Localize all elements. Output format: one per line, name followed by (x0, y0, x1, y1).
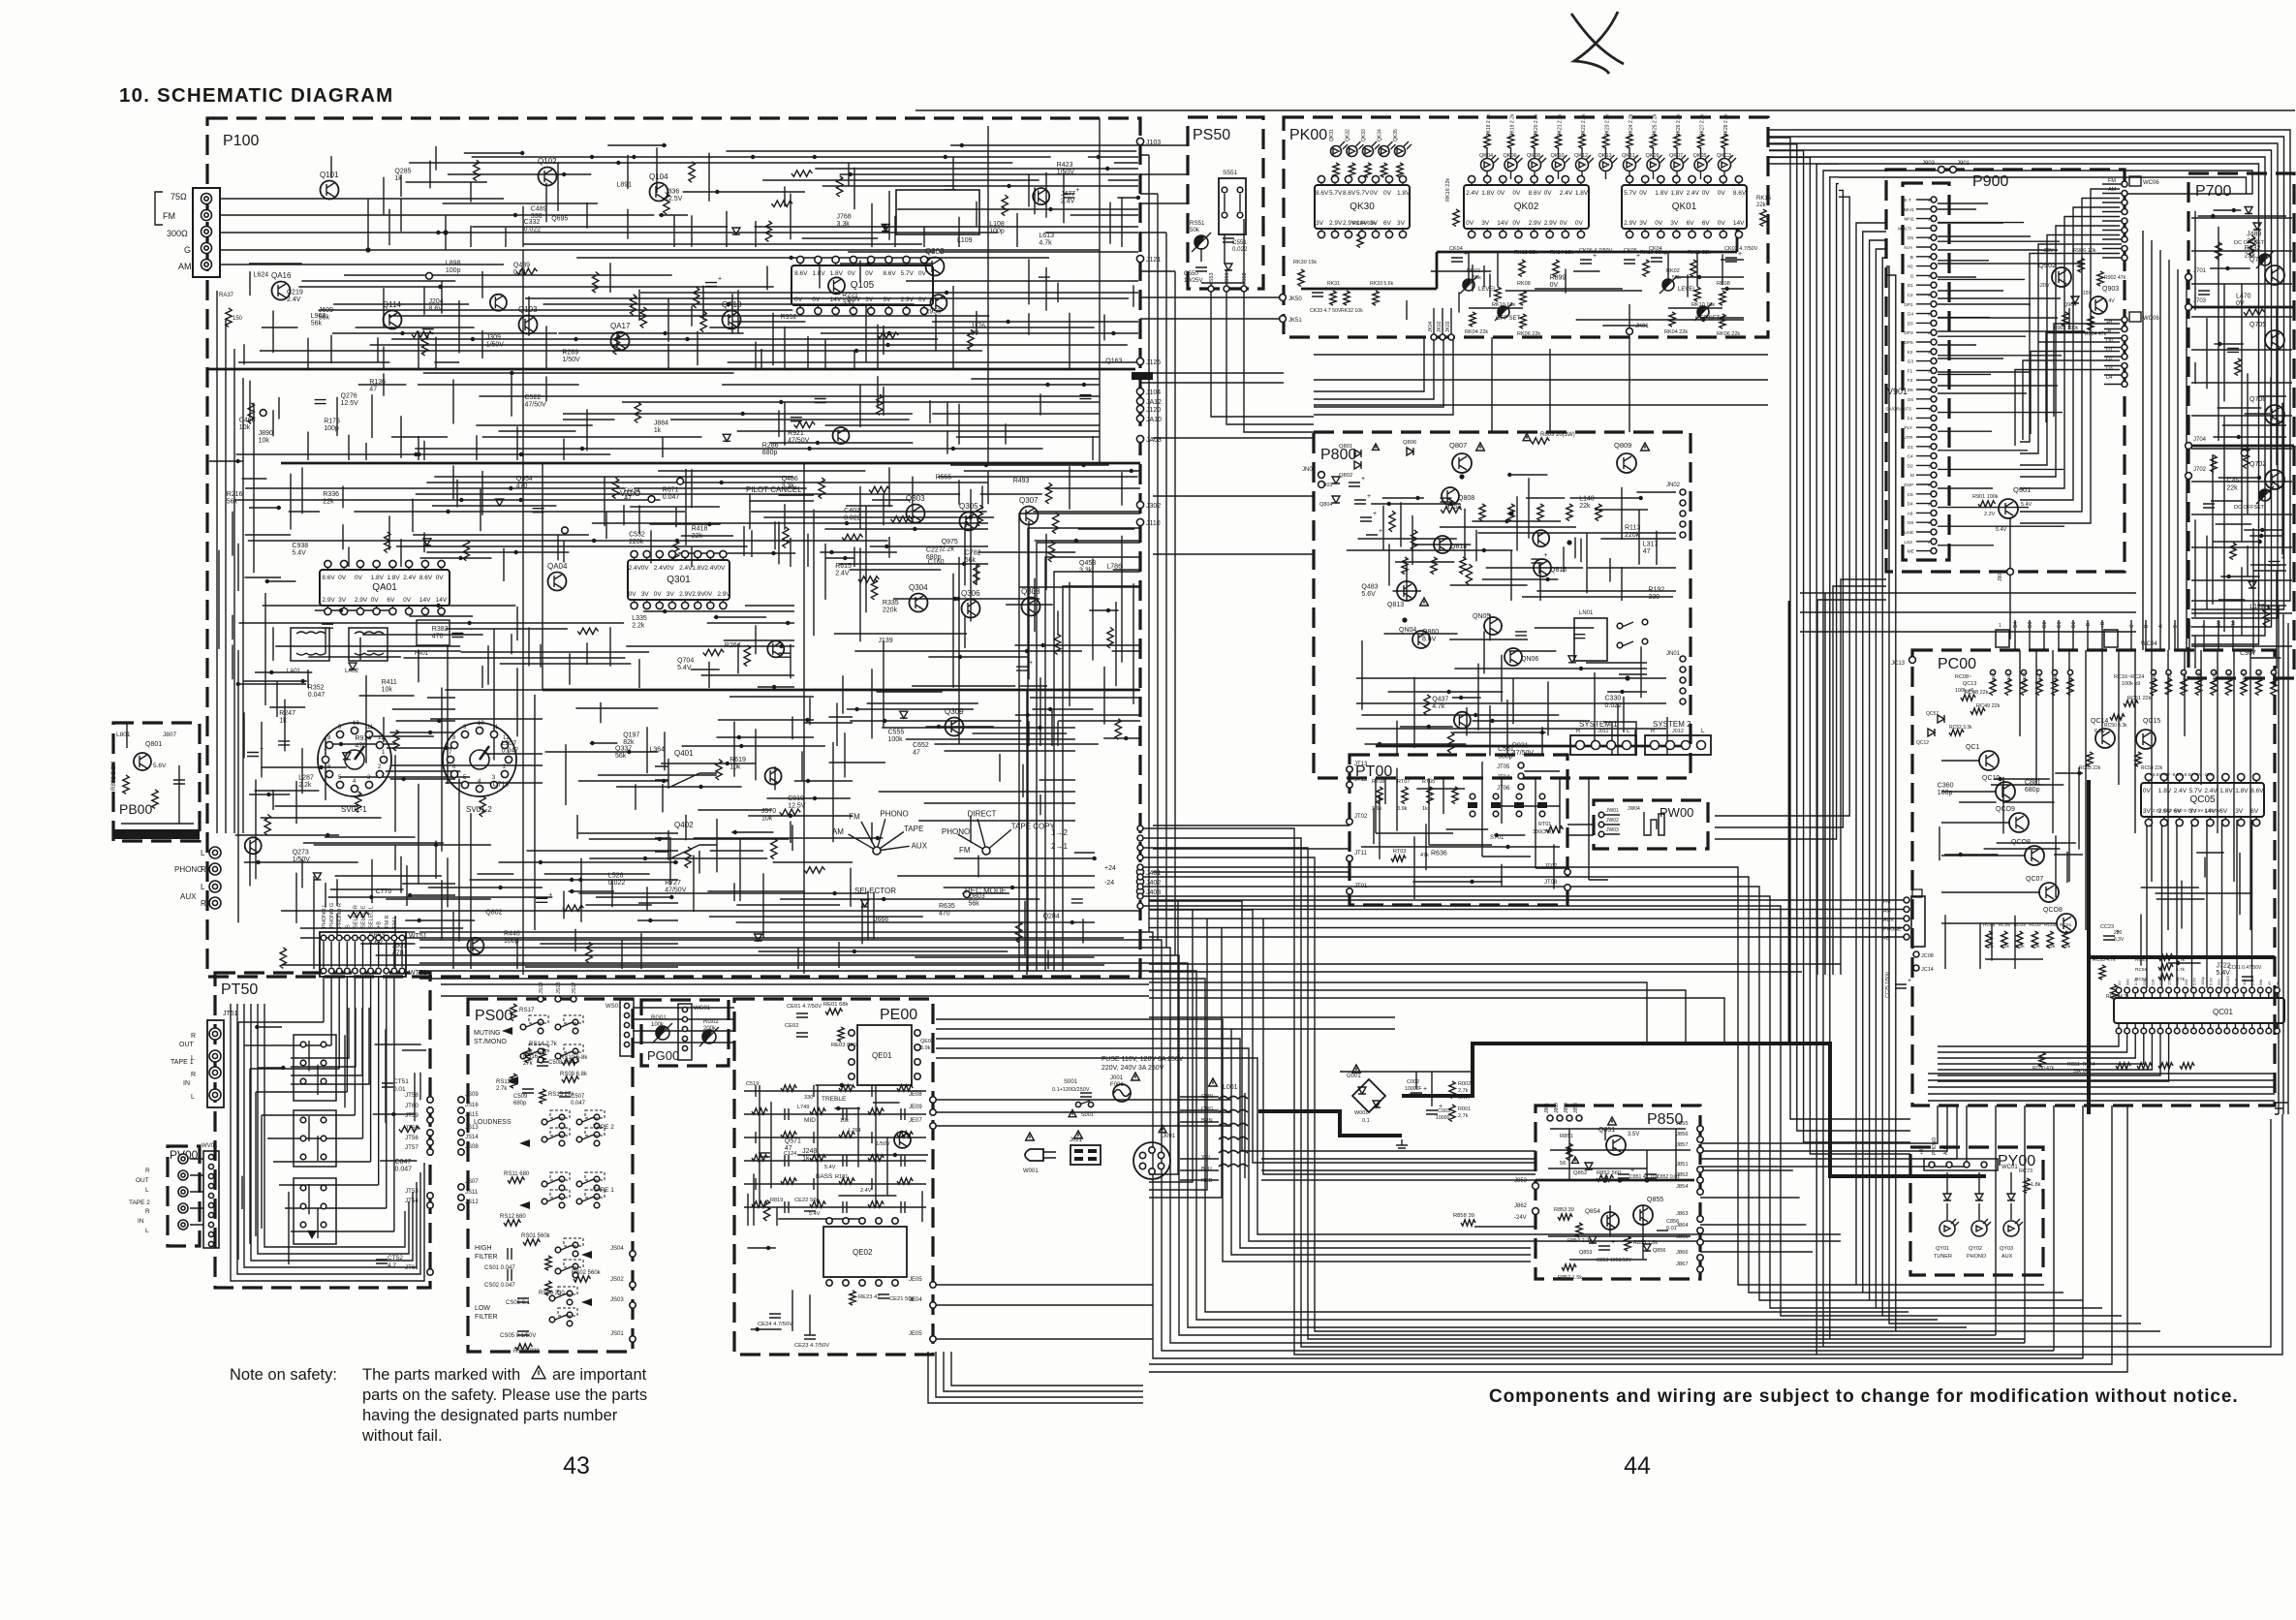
svg-text:Q706: Q706 (2249, 396, 2266, 403)
svg-text:Q401: Q401 (674, 749, 694, 758)
svg-text:12: 12 (378, 735, 385, 741)
svg-text:Q801: Q801 (1339, 444, 1352, 450)
svg-text:14V: 14V (436, 597, 448, 604)
svg-text:3.9k: 3.9k (1372, 806, 1382, 812)
svg-text:PHONO: PHONO (1932, 1137, 1938, 1155)
svg-text:MH2: MH2 (1904, 217, 1913, 223)
svg-text:R636: R636 (1431, 850, 1447, 857)
svg-text:10: 10 (353, 721, 359, 727)
svg-text:JT06: JT06 (1497, 786, 1510, 792)
svg-text:0V: 0V (355, 575, 363, 581)
svg-text:5.4V: 5.4V (2104, 298, 2115, 304)
svg-text:J248: J248 (802, 1148, 817, 1155)
svg-text:RK08: RK08 (1517, 281, 1531, 287)
svg-text:C402: C402 (844, 508, 860, 514)
svg-text:+: + (1738, 251, 1742, 258)
svg-text:RK20 2.2k: RK20 2.2k (1534, 113, 1539, 137)
svg-text:+24: +24 (1104, 865, 1116, 872)
svg-text:Q804: Q804 (1319, 502, 1332, 508)
svg-text:Q439: Q439 (513, 263, 530, 269)
svg-text:R906 10k: R906 10k (2073, 248, 2096, 254)
svg-text:+B: +B (377, 921, 383, 928)
svg-text:JS08: JS08 (465, 1144, 479, 1150)
svg-text:RK19 2.2k: RK19 2.2k (1510, 113, 1516, 137)
svg-text:47: 47 (369, 387, 377, 393)
svg-text:AM: AM (2108, 187, 2117, 193)
svg-text:MID: MID (804, 1117, 816, 1124)
svg-text:R: R (1651, 729, 1656, 734)
svg-text:AM: AM (178, 262, 192, 271)
svg-text:PHONO G: PHONO G (329, 903, 335, 928)
svg-text:8.6V: 8.6V (2250, 788, 2264, 794)
svg-text:7: 7 (2202, 625, 2208, 628)
svg-text:C782: C782 (965, 550, 981, 557)
svg-text:Q705: Q705 (2249, 322, 2266, 328)
svg-text:The parts marked with: The parts marked with (362, 1366, 520, 1384)
svg-text:AM: AM (832, 827, 844, 836)
svg-text:22k: 22k (323, 499, 334, 506)
svg-text:QC13: QC13 (1963, 681, 1976, 687)
svg-text:220k: 220k (883, 607, 898, 614)
svg-text:Note on safety:: Note on safety: (230, 1366, 337, 1384)
svg-text:5.6V: 5.6V (2209, 977, 2214, 985)
svg-text:100k: 100k (888, 736, 904, 743)
svg-text:F001: F001 (1110, 1082, 1124, 1088)
svg-text:R932: R932 (2245, 245, 2261, 252)
svg-text:+B: +B (2100, 621, 2106, 628)
svg-text:1.8V: 1.8V (371, 575, 385, 581)
svg-text:C6: C6 (1908, 492, 1913, 498)
svg-text:56k: 56k (2258, 980, 2263, 985)
svg-text:330: 330 (1648, 594, 1660, 601)
svg-text:12.5V: 12.5V (2167, 975, 2172, 985)
svg-text:RC52 3.3k: RC52 3.3k (1949, 725, 1972, 731)
svg-text:R446: R446 (504, 931, 520, 938)
svg-text:ORG: ORG (1201, 1106, 1214, 1112)
svg-text:10k: 10k (761, 816, 773, 823)
svg-text:R352: R352 (308, 685, 325, 692)
svg-text:PB00: PB00 (119, 801, 152, 817)
svg-text:J859: J859 (1564, 1103, 1569, 1113)
svg-text:Q571: Q571 (785, 1137, 801, 1144)
svg-text:F3: F3 (1908, 378, 1913, 384)
svg-text:J309: J309 (486, 334, 501, 341)
svg-text:JT54: JT54 (405, 1198, 419, 1204)
svg-text:RK02: RK02 (1467, 268, 1480, 274)
svg-text:JN03: JN03 (1302, 467, 1317, 473)
svg-text:C770: C770 (376, 888, 392, 895)
svg-text:C453: C453 (2226, 478, 2243, 484)
svg-text:Q695: Q695 (551, 215, 568, 222)
svg-text:Q163: Q163 (1105, 358, 1122, 365)
svg-text:Q307: Q307 (1019, 496, 1039, 505)
svg-text:JT13: JT13 (1354, 762, 1368, 767)
svg-text:3.3k: 3.3k (1079, 568, 1093, 575)
svg-text:RC61~RC64: RC61~RC64 (2067, 1062, 2095, 1068)
svg-text:WC01: WC01 (2001, 1165, 2018, 1170)
svg-text:JT58: JT58 (405, 1092, 419, 1099)
svg-text:N.H: N.H (1904, 245, 1912, 251)
svg-text:JW04: JW04 (1628, 806, 1640, 812)
svg-text:1/50V: 1/50V (293, 857, 311, 863)
svg-text:Q902: Q902 (2038, 261, 2056, 269)
svg-text:C881: C881 (2025, 780, 2041, 787)
svg-text:+: + (1379, 528, 1382, 535)
svg-text:5.7V: 5.7V (901, 270, 915, 277)
svg-text:22k: 22k (2150, 980, 2155, 985)
svg-text:JS14: JS14 (465, 1135, 479, 1140)
svg-text:CE24 4.7/50V: CE24 4.7/50V (758, 1322, 792, 1327)
svg-text:1.8V: 1.8V (387, 575, 400, 581)
svg-text:4.7: 4.7 (388, 1262, 396, 1269)
svg-text:16: 16 (1928, 407, 1933, 412)
svg-text:R855 1.8k: R855 1.8k (1633, 1240, 1658, 1246)
svg-text:R336: R336 (323, 491, 339, 498)
svg-text:J704: J704 (2193, 437, 2207, 443)
svg-text:OUT: OUT (136, 1177, 149, 1184)
svg-text:TREBLE: TREBLE (822, 1096, 847, 1103)
svg-text:R181: R181 (835, 1174, 848, 1180)
svg-text:2→1: 2→1 (1051, 842, 1068, 851)
svg-text:A9: A9 (1908, 511, 1913, 516)
svg-text:22k: 22k (2226, 485, 2238, 492)
svg-text:R921: R921 (788, 430, 804, 437)
svg-text:Q102: Q102 (538, 157, 557, 166)
svg-text:RC53 22k: RC53 22k (2079, 765, 2101, 771)
svg-text:JW01: JW01 (1606, 808, 1619, 814)
svg-text:8.6V: 8.6V (1422, 636, 1437, 642)
svg-text:L001: L001 (1223, 1084, 1238, 1091)
svg-text:0V: 0V (1550, 282, 1559, 289)
svg-text:CK04: CK04 (1449, 246, 1463, 252)
svg-text:Q851: Q851 (1598, 1127, 1615, 1134)
svg-text:RT03: RT03 (1393, 849, 1406, 855)
svg-text:H2: H2 (1908, 265, 1913, 270)
svg-text:2.4V: 2.4V (2174, 788, 2187, 794)
svg-text:JS19: JS19 (539, 981, 544, 994)
svg-text:J902: J902 (1998, 571, 2003, 581)
svg-text:W001: W001 (1023, 1168, 1039, 1174)
svg-text:1.8k: 1.8k (2031, 1182, 2041, 1188)
svg-text:J091: J091 (1163, 1134, 1176, 1139)
svg-text:W001: W001 (1354, 1110, 1368, 1116)
svg-text:RC08~: RC08~ (1955, 674, 1971, 680)
svg-text:RC17: RC17 (2167, 672, 2172, 684)
svg-text:R411: R411 (382, 679, 397, 686)
svg-text:RE01 68k: RE01 68k (823, 1002, 849, 1008)
svg-text:1.8V: 1.8V (2219, 788, 2233, 794)
svg-text:RC8: RC8 (2053, 674, 2058, 684)
svg-text:8.6V: 8.6V (883, 270, 896, 277)
svg-text:3.3k: 3.3k (837, 221, 851, 228)
svg-text:8.6V: 8.6V (1343, 190, 1356, 197)
svg-text:JT53: JT53 (405, 1188, 419, 1195)
svg-text:R902 47k: R902 47k (2104, 275, 2126, 281)
svg-text:R: R (1576, 729, 1581, 734)
svg-text:RK11 82k: RK11 82k (1688, 250, 1711, 256)
svg-text:6V: 6V (1687, 220, 1695, 227)
svg-text:C489: C489 (531, 205, 547, 212)
svg-text:R635: R635 (939, 903, 955, 910)
svg-text:SV01-2: SV01-2 (466, 805, 492, 814)
svg-text:RS02 560k: RS02 560k (572, 1270, 602, 1276)
svg-text:Q860: Q860 (1422, 629, 1439, 636)
svg-text:R615: R615 (835, 563, 852, 570)
svg-text:L: L (201, 849, 205, 857)
svg-text:RC73: RC73 (2019, 1168, 2032, 1174)
svg-text:RG02: RG02 (703, 1019, 719, 1025)
svg-text:10k: 10k (2242, 980, 2247, 985)
svg-text:parts on the safety. Please us: parts on the safety. Please use the part… (362, 1386, 647, 1404)
svg-text:R555: R555 (936, 474, 952, 481)
svg-text:PS50: PS50 (1193, 127, 1230, 143)
svg-text:CE22 56p: CE22 56p (794, 1198, 820, 1203)
svg-text:2.4V: 2.4V (1466, 190, 1479, 197)
svg-text:10k: 10k (259, 438, 270, 445)
svg-text:0V: 0V (371, 597, 380, 604)
svg-text:47k: 47k (1420, 853, 1429, 858)
svg-text:DC OFFSET: DC OFFSET (2234, 505, 2265, 511)
svg-text:D6: D6 (1908, 388, 1913, 393)
svg-text:J855: J855 (1676, 1121, 1689, 1127)
svg-text:JS02: JS02 (610, 1277, 624, 1283)
svg-text:1: 1 (1999, 623, 2001, 629)
svg-text:JS07: JS07 (465, 1179, 479, 1185)
svg-text:Q337: Q337 (615, 746, 632, 753)
svg-text:JT59: JT59 (405, 1112, 419, 1119)
svg-text:0V: 0V (1639, 190, 1648, 197)
svg-text:L624: L624 (254, 271, 269, 278)
svg-text:22k: 22k (692, 533, 703, 540)
svg-text:J854: J854 (1676, 1184, 1689, 1190)
svg-text:6V: 6V (2250, 808, 2259, 815)
svg-text:CS06 0.1: CS06 0.1 (506, 1300, 531, 1306)
svg-text:F1: F1 (1908, 368, 1913, 374)
svg-text:5.4V: 5.4V (292, 549, 306, 556)
svg-text:C4: C4 (1908, 454, 1913, 460)
svg-text:WC06: WC06 (2143, 180, 2159, 186)
svg-text:Q103: Q103 (518, 305, 538, 314)
svg-text:+: + (1361, 476, 1365, 483)
svg-text:C332: C332 (524, 219, 541, 226)
svg-text:50k: 50k (1190, 227, 1200, 234)
svg-text:FM: FM (163, 211, 175, 221)
svg-text:Q702: Q702 (2249, 461, 2266, 468)
svg-text:QK05: QK05 (1693, 153, 1707, 159)
svg-text:R853 39: R853 39 (1554, 1207, 1574, 1213)
svg-text:G5: G5 (1908, 235, 1914, 241)
svg-text:C555: C555 (888, 730, 905, 736)
svg-text:5.7V: 5.7V (1356, 190, 1370, 197)
svg-text:JS12: JS12 (465, 1199, 479, 1205)
svg-text:12.5V: 12.5V (788, 802, 806, 809)
svg-text:QC12: QC12 (1916, 740, 1929, 746)
svg-text:R819: R819 (770, 1198, 783, 1203)
svg-text:330: 330 (804, 1095, 813, 1101)
svg-text:SA/CRAKFS: SA/CRAKFS (1885, 407, 1911, 413)
svg-text:L749: L749 (797, 1105, 809, 1110)
svg-text:BASS: BASS (816, 1173, 833, 1180)
svg-text:0V: 0V (436, 575, 445, 581)
svg-text:JT61: JT61 (405, 1264, 419, 1271)
svg-text:J507: J507 (392, 943, 407, 950)
svg-text:JN01: JN01 (1666, 651, 1681, 657)
svg-text:30: 30 (1928, 273, 1933, 278)
svg-text:3V: 3V (2143, 808, 2152, 815)
svg-text:RS12 680: RS12 680 (500, 1214, 526, 1220)
svg-text:(3W): (3W) (1458, 1095, 1470, 1101)
svg-text:1.8V: 1.8V (1481, 190, 1495, 197)
svg-text:RE03 820: RE03 820 (831, 1043, 856, 1048)
svg-text:10: 10 (478, 721, 484, 727)
svg-text:C851 47 16V: C851 47 16V (1629, 1174, 1660, 1180)
svg-text:R418: R418 (692, 526, 708, 533)
svg-text:C919: C919 (788, 795, 804, 802)
svg-text:L122: L122 (2249, 604, 2265, 610)
svg-text:PHONO: PHONO (1967, 1254, 1987, 1260)
svg-text:6V: 6V (1383, 220, 1392, 227)
svg-text:V901: V901 (1887, 387, 1908, 396)
svg-text:JS18: JS18 (556, 981, 562, 994)
svg-text:56k: 56k (319, 314, 330, 321)
svg-text:MH1: MH1 (1904, 207, 1913, 213)
svg-text:J860: J860 (1554, 1103, 1560, 1113)
svg-text:JC08: JC08 (1921, 953, 1934, 959)
svg-text:RC12: RC12 (1991, 672, 1996, 684)
svg-text:470: 470 (516, 483, 528, 489)
svg-text:J021: J021 (1070, 1137, 1083, 1143)
svg-text:3V: 3V (2235, 808, 2244, 815)
svg-text:0V: 0V (1466, 220, 1474, 227)
svg-text:QC15: QC15 (2143, 718, 2160, 725)
svg-text:CE02: CE02 (785, 1023, 799, 1029)
svg-text:QK08: QK08 (1527, 153, 1540, 159)
svg-text:R619: R619 (729, 757, 746, 763)
svg-text:DC OFFSET: DC OFFSET (2234, 240, 2265, 246)
svg-text:RK22 2.2k: RK22 2.2k (1581, 113, 1587, 137)
svg-text:RC24: RC24 (2272, 672, 2277, 684)
svg-text:R335: R335 (883, 600, 899, 607)
svg-text:Q975: Q975 (942, 539, 958, 545)
svg-text:56k: 56k (965, 557, 977, 564)
svg-text:6V: 6V (387, 597, 395, 604)
svg-text:0V: 0V (629, 591, 637, 598)
svg-text:47: 47 (2267, 981, 2272, 985)
svg-text:PHONO L: PHONO L (322, 904, 327, 928)
svg-text:28: 28 (1928, 293, 1933, 297)
svg-text:R803 20(3W): R803 20(3W) (1540, 432, 1575, 438)
svg-text:QA17: QA17 (610, 322, 631, 330)
svg-text:QK32: QK32 (1346, 129, 1351, 141)
svg-text:PHONO: PHONO (942, 827, 970, 836)
svg-text:RK18 2.2k: RK18 2.2k (1486, 113, 1492, 137)
svg-text:1.8V: 1.8V (1670, 190, 1684, 197)
svg-text:RK27 2.2k: RK27 2.2k (1700, 113, 1706, 137)
svg-text:ME: ME (1908, 549, 1914, 555)
svg-text:10: 10 (1928, 463, 1933, 468)
svg-text:QK04: QK04 (1479, 153, 1493, 159)
svg-text:330: 330 (2125, 979, 2130, 985)
svg-text:B: B (1910, 255, 1913, 261)
svg-text:QE01: QE01 (872, 1051, 892, 1060)
svg-text:+: + (548, 891, 552, 898)
svg-text:Q284: Q284 (1043, 914, 1060, 920)
svg-text:+: + (1324, 286, 1328, 293)
svg-text:RC51 22k: RC51 22k (2127, 696, 2152, 701)
svg-text:2.4V: 2.4V (704, 565, 718, 572)
svg-text:47/50V: 47/50V (1512, 750, 1535, 757)
svg-text:2.4V: 2.4V (1560, 190, 1573, 197)
svg-text:Q104: Q104 (649, 172, 668, 181)
svg-text:Q197: Q197 (623, 732, 639, 739)
svg-text:C227: C227 (926, 546, 943, 553)
svg-text:RT05: RT05 (1422, 779, 1435, 785)
svg-text:150: 150 (233, 316, 243, 322)
svg-text:CE23 4.7/50V: CE23 4.7/50V (794, 1343, 829, 1349)
svg-text:QC05: QC05 (2189, 794, 2216, 805)
svg-text:RS10 6-8k: RS10 6-8k (560, 1055, 588, 1061)
svg-text:JT12: JT12 (1354, 777, 1368, 783)
svg-text:200k: 200k (703, 1026, 717, 1032)
svg-text:0V: 0V (918, 296, 927, 303)
svg-text:14: 14 (1928, 425, 1933, 430)
svg-text:QK10: QK10 (1551, 153, 1565, 159)
svg-text:RK30 15k: RK30 15k (1293, 260, 1317, 265)
svg-text:QC57: QC57 (1926, 711, 1939, 717)
svg-text:Q285: Q285 (394, 168, 411, 174)
svg-text:QK34: QK34 (1378, 129, 1383, 141)
svg-text:Q304: Q304 (909, 583, 928, 592)
svg-text:QK12: QK12 (1574, 153, 1588, 159)
svg-text:2.2k: 2.2k (942, 545, 955, 552)
svg-text:100p: 100p (324, 425, 339, 432)
svg-text:QK11: QK11 (1622, 153, 1635, 159)
svg-text:QC07: QC07 (2026, 876, 2043, 883)
svg-text:QC10: QC10 (1982, 775, 2000, 782)
svg-text:+: + (1543, 552, 1547, 559)
svg-text:3V: 3V (883, 296, 891, 303)
svg-text:RK26 2.2k: RK26 2.2k (1676, 113, 1682, 137)
svg-text:D3: D3 (2106, 366, 2113, 372)
svg-text:1.8V: 1.8V (812, 270, 825, 277)
svg-text:WS01: WS01 (605, 1004, 622, 1010)
svg-text:JE04: JE04 (909, 1297, 922, 1303)
svg-text:2.2k: 2.2k (2062, 944, 2071, 950)
svg-text:8.6V: 8.6V (419, 575, 433, 581)
svg-text:2.2k: 2.2k (298, 782, 312, 789)
svg-text:2.4V: 2.4V (403, 575, 417, 581)
svg-text:-B: -B (2086, 622, 2092, 628)
svg-text:QCO9: QCO9 (1996, 806, 2015, 813)
svg-text:DP5: DP5 (1904, 340, 1913, 346)
svg-text:WC06: WC06 (2143, 316, 2159, 322)
svg-text:JK01: JK01 (1635, 324, 1649, 329)
svg-text:AUX: AUX (2001, 1254, 2013, 1260)
svg-text:AUX: AUX (912, 841, 928, 850)
svg-text:JT04: JT04 (1497, 775, 1510, 781)
svg-text:RS16: RS16 (523, 1054, 539, 1060)
svg-text:AUX: AUX (180, 892, 197, 901)
svg-text:32: 32 (1928, 255, 1933, 260)
svg-text:Q101: Q101 (320, 171, 339, 179)
svg-text:G8: G8 (1908, 520, 1914, 526)
svg-text:2.2V: 2.2V (1984, 512, 1996, 517)
svg-text:470: 470 (392, 950, 404, 957)
svg-text:PT50: PT50 (221, 981, 258, 998)
svg-text:C938: C938 (292, 543, 308, 549)
svg-text:JK50: JK50 (1288, 296, 1302, 302)
svg-text:Q901: Q901 (2013, 485, 2031, 494)
